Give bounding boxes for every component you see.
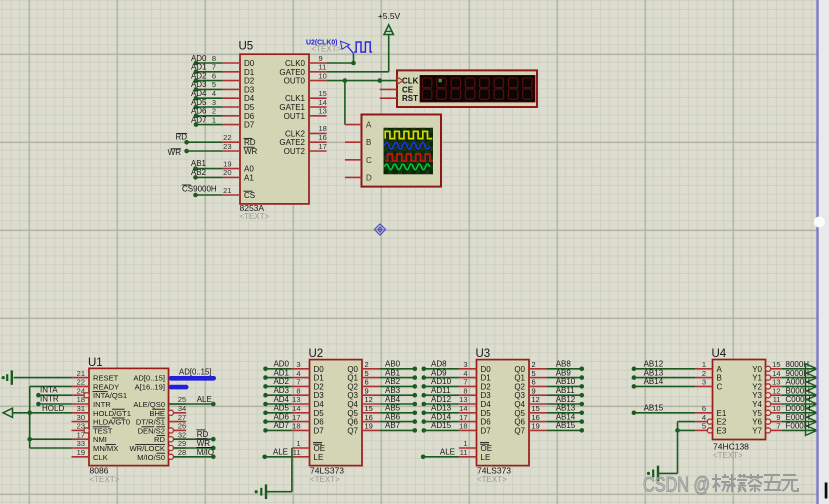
svg-text:14: 14 <box>459 404 467 413</box>
svg-text:AB2: AB2 <box>385 377 401 386</box>
svg-text:11: 11 <box>773 395 781 404</box>
svg-text:<TEXT>: <TEXT> <box>240 212 270 221</box>
svg-text:ALE: ALE <box>440 448 455 457</box>
svg-text:D1: D1 <box>314 374 325 383</box>
svg-text:ALE: ALE <box>197 395 212 404</box>
svg-text:<TEXT>: <TEXT> <box>312 45 342 54</box>
svg-text:HLDA/GT0: HLDA/GT0 <box>93 418 130 427</box>
svg-text:18: 18 <box>319 124 327 133</box>
svg-text:OE: OE <box>481 444 493 453</box>
svg-text:Q7: Q7 <box>347 426 358 435</box>
svg-text:BHE: BHE <box>149 409 165 418</box>
svg-text:24: 24 <box>77 386 85 395</box>
svg-text:D7: D7 <box>481 426 492 435</box>
svg-text:19: 19 <box>77 448 85 457</box>
svg-text:NMI: NMI <box>93 435 107 444</box>
svg-text:WR: WR <box>168 148 182 157</box>
svg-text:Q1: Q1 <box>514 374 525 383</box>
svg-text:Q6: Q6 <box>347 418 358 427</box>
svg-text:GATE2: GATE2 <box>279 138 305 147</box>
svg-text:34: 34 <box>178 404 186 413</box>
svg-text:15: 15 <box>319 89 327 98</box>
svg-text:AB14: AB14 <box>644 377 664 386</box>
svg-text:29: 29 <box>178 439 186 448</box>
svg-text:19: 19 <box>223 159 231 168</box>
svg-text:9: 9 <box>532 386 536 395</box>
svg-text:16: 16 <box>532 413 540 422</box>
svg-text:AB13: AB13 <box>644 368 664 377</box>
svg-text:AB15: AB15 <box>556 421 576 430</box>
svg-text:E2: E2 <box>717 418 727 427</box>
svg-text:Y0: Y0 <box>752 365 762 374</box>
svg-text:8: 8 <box>296 386 300 395</box>
svg-text:GATE0: GATE0 <box>279 68 305 77</box>
svg-text:1: 1 <box>296 439 300 448</box>
svg-text:26: 26 <box>178 422 186 431</box>
svg-text:AD8: AD8 <box>431 360 447 369</box>
svg-text:Q2: Q2 <box>347 382 358 391</box>
svg-text:6: 6 <box>702 404 706 413</box>
svg-text:RD: RD <box>175 133 187 142</box>
svg-text:15: 15 <box>532 404 540 413</box>
svg-text:M/IO/S0: M/IO/S0 <box>137 453 165 462</box>
svg-text:CLK1: CLK1 <box>285 94 306 103</box>
svg-text:AD4: AD4 <box>191 89 207 98</box>
svg-text:CLK2: CLK2 <box>285 129 306 138</box>
svg-text:AD9: AD9 <box>431 368 447 377</box>
svg-text:74LS373: 74LS373 <box>310 466 344 476</box>
svg-text:CSDN @: CSDN @ <box>643 473 710 497</box>
svg-text:3: 3 <box>212 98 216 107</box>
svg-text:17: 17 <box>319 142 327 151</box>
svg-text:Y2: Y2 <box>752 382 762 391</box>
svg-text:AD14: AD14 <box>431 412 452 421</box>
svg-text:5: 5 <box>365 369 369 378</box>
svg-text:22: 22 <box>77 378 85 387</box>
svg-text:CS9000H: CS9000H <box>182 184 217 193</box>
svg-text:D3: D3 <box>244 85 255 94</box>
svg-text:32: 32 <box>178 430 186 439</box>
svg-text:7: 7 <box>296 378 300 387</box>
svg-text:Y5: Y5 <box>752 409 762 418</box>
svg-text:7: 7 <box>212 63 216 72</box>
svg-text:D3: D3 <box>314 391 325 400</box>
svg-text:1: 1 <box>463 439 467 448</box>
svg-text:<TEXT>: <TEXT> <box>90 475 120 484</box>
svg-text:2: 2 <box>365 360 369 369</box>
svg-text:CLK: CLK <box>402 77 419 86</box>
svg-text:Y3: Y3 <box>752 391 762 400</box>
svg-text:RD: RD <box>197 430 209 439</box>
svg-text:15: 15 <box>365 404 373 413</box>
svg-text:OUT0: OUT0 <box>284 77 306 86</box>
svg-text:30: 30 <box>77 413 85 422</box>
svg-text:Q1: Q1 <box>347 374 358 383</box>
svg-text:<TEXT>: <TEXT> <box>310 475 340 484</box>
svg-text:1: 1 <box>702 360 706 369</box>
svg-text:AD12: AD12 <box>431 395 452 404</box>
svg-text:28: 28 <box>178 448 186 457</box>
svg-text:D0: D0 <box>481 365 492 374</box>
svg-text:AD10: AD10 <box>431 377 452 386</box>
svg-text:4: 4 <box>296 369 300 378</box>
svg-text:D1: D1 <box>481 374 492 383</box>
svg-text:D: D <box>366 173 372 182</box>
svg-text:7: 7 <box>463 378 467 387</box>
svg-text:16: 16 <box>319 133 327 142</box>
svg-text:14: 14 <box>292 404 300 413</box>
svg-text:CS: CS <box>244 191 255 200</box>
svg-text:AD3: AD3 <box>191 80 207 89</box>
svg-text:A: A <box>717 365 723 374</box>
svg-text:A1: A1 <box>244 173 254 182</box>
svg-text:AD1: AD1 <box>191 63 207 72</box>
svg-text:DEN/S2: DEN/S2 <box>138 426 165 435</box>
svg-text:AB14: AB14 <box>556 412 576 421</box>
svg-text:21: 21 <box>223 186 231 195</box>
svg-text:AD7: AD7 <box>273 421 289 430</box>
svg-text:D5: D5 <box>244 103 255 112</box>
svg-text:AD3: AD3 <box>273 386 289 395</box>
svg-text:U3: U3 <box>476 348 491 360</box>
svg-text:AD0: AD0 <box>273 360 289 369</box>
svg-text:5: 5 <box>532 369 536 378</box>
svg-text:19: 19 <box>365 422 373 431</box>
svg-text:AD13: AD13 <box>431 404 452 413</box>
svg-text:RD: RD <box>244 138 256 147</box>
svg-text:AB3: AB3 <box>385 386 401 395</box>
svg-text:AD1: AD1 <box>273 368 289 377</box>
svg-text:AD2: AD2 <box>273 377 289 386</box>
svg-text:11: 11 <box>460 448 468 457</box>
svg-text:9: 9 <box>776 413 780 422</box>
svg-text:D5: D5 <box>314 409 325 418</box>
svg-text:RST: RST <box>402 94 418 103</box>
svg-text:21: 21 <box>77 369 85 378</box>
svg-text:25: 25 <box>178 395 186 404</box>
svg-text:4: 4 <box>702 413 706 422</box>
svg-text:Q6: Q6 <box>514 418 525 427</box>
svg-text:12: 12 <box>772 386 780 395</box>
svg-text:AB1: AB1 <box>191 159 207 168</box>
svg-text:Y6: Y6 <box>752 418 762 427</box>
svg-text:33: 33 <box>77 439 85 448</box>
svg-text:22: 22 <box>223 133 231 142</box>
svg-text:8086: 8086 <box>90 466 109 476</box>
svg-text:CLK: CLK <box>93 453 108 462</box>
svg-text:6: 6 <box>365 378 369 387</box>
svg-text:2: 2 <box>212 107 216 116</box>
svg-text:4: 4 <box>463 369 467 378</box>
svg-text:Q3: Q3 <box>514 391 525 400</box>
svg-text:Q0: Q0 <box>514 365 525 374</box>
svg-text:Q2: Q2 <box>514 382 525 391</box>
svg-text:Q4: Q4 <box>347 400 358 409</box>
svg-text:D4: D4 <box>481 400 492 409</box>
svg-text:C: C <box>717 382 723 391</box>
svg-text:D2: D2 <box>314 382 325 391</box>
svg-text:A: A <box>366 121 372 130</box>
svg-text:D4: D4 <box>314 400 325 409</box>
svg-text:AD4: AD4 <box>273 395 289 404</box>
svg-text:AD[0..15]: AD[0..15] <box>133 374 165 383</box>
svg-text:B: B <box>366 138 371 147</box>
svg-text:Q0: Q0 <box>347 365 358 374</box>
svg-text:AD5: AD5 <box>191 98 207 107</box>
svg-text:17: 17 <box>77 430 85 439</box>
svg-text:17: 17 <box>459 413 467 422</box>
svg-text:AD2: AD2 <box>191 71 207 80</box>
svg-text:3: 3 <box>702 378 706 387</box>
svg-text:AD11: AD11 <box>431 386 451 395</box>
svg-text:AD6: AD6 <box>191 107 207 116</box>
svg-text:HOLD/GT1: HOLD/GT1 <box>93 409 131 418</box>
svg-text:AD6: AD6 <box>273 412 289 421</box>
svg-text:HOLD: HOLD <box>42 404 64 413</box>
svg-text:AB8: AB8 <box>556 360 572 369</box>
svg-text:WR: WR <box>244 147 258 156</box>
svg-text:AD0: AD0 <box>191 54 207 63</box>
svg-text:Q5: Q5 <box>514 409 525 418</box>
svg-text:3: 3 <box>463 360 467 369</box>
svg-text:74HC138: 74HC138 <box>713 442 749 452</box>
svg-text:Y4: Y4 <box>752 400 762 409</box>
svg-text:7: 7 <box>776 422 780 431</box>
svg-text:11: 11 <box>319 63 327 72</box>
svg-text:WR/LOCK: WR/LOCK <box>130 444 165 453</box>
svg-text:INTA/QS1: INTA/QS1 <box>93 391 127 400</box>
svg-text:6: 6 <box>212 71 216 80</box>
svg-text:15: 15 <box>772 360 780 369</box>
svg-text:AB6: AB6 <box>385 412 401 421</box>
svg-text:2: 2 <box>702 369 706 378</box>
svg-text:ALE/QS0: ALE/QS0 <box>133 400 165 409</box>
svg-text:GATE1: GATE1 <box>279 103 305 112</box>
svg-text:D3: D3 <box>481 391 492 400</box>
svg-text:AB12: AB12 <box>644 360 664 369</box>
svg-text:18: 18 <box>459 422 467 431</box>
svg-text:OUT2: OUT2 <box>284 147 306 156</box>
svg-text:10: 10 <box>772 404 780 413</box>
svg-text:READY: READY <box>93 382 119 391</box>
svg-text:INTR: INTR <box>93 400 111 409</box>
svg-text:D0: D0 <box>314 365 325 374</box>
svg-text:AB13: AB13 <box>556 404 576 413</box>
svg-text:AD7: AD7 <box>191 115 207 124</box>
svg-text:Q7: Q7 <box>514 426 525 435</box>
svg-text:12: 12 <box>365 395 373 404</box>
svg-text:AD[0..15]: AD[0..15] <box>179 367 212 376</box>
svg-text:14: 14 <box>772 369 780 378</box>
svg-text:18: 18 <box>77 395 85 404</box>
svg-text:INTA: INTA <box>40 386 58 395</box>
svg-text:OUT1: OUT1 <box>284 112 306 121</box>
svg-text:19: 19 <box>532 422 540 431</box>
svg-text:RD: RD <box>154 435 165 444</box>
svg-text:WR: WR <box>197 439 211 448</box>
svg-text:6: 6 <box>532 378 536 387</box>
svg-text:17: 17 <box>292 413 300 422</box>
svg-text:AB12: AB12 <box>556 395 576 404</box>
svg-text:U1: U1 <box>88 357 103 369</box>
svg-text:20: 20 <box>223 168 231 177</box>
svg-text:U2: U2 <box>309 348 324 360</box>
svg-text:LE: LE <box>481 453 491 462</box>
svg-text:D1: D1 <box>244 68 255 77</box>
svg-text:AB10: AB10 <box>556 377 576 386</box>
svg-text:E3: E3 <box>717 426 727 435</box>
svg-text:23: 23 <box>77 422 85 431</box>
svg-text:AB4: AB4 <box>385 395 401 404</box>
svg-text:Y7: Y7 <box>752 426 762 435</box>
svg-text:AB11: AB11 <box>556 386 576 395</box>
svg-text:D4: D4 <box>244 94 255 103</box>
svg-text:13: 13 <box>292 395 300 404</box>
svg-text:AD5: AD5 <box>273 404 289 413</box>
svg-text:8: 8 <box>212 54 216 63</box>
svg-text:5: 5 <box>212 80 216 89</box>
svg-text:<TEXT>: <TEXT> <box>477 475 507 484</box>
svg-text:AB9: AB9 <box>556 368 572 377</box>
svg-text:+5.5V: +5.5V <box>378 11 401 21</box>
svg-text:D7: D7 <box>314 426 325 435</box>
svg-text:AB7: AB7 <box>385 421 401 430</box>
svg-text:27: 27 <box>178 413 186 422</box>
svg-text:B: B <box>717 374 722 383</box>
svg-text:AB15: AB15 <box>644 404 664 413</box>
svg-text:A[16..19]: A[16..19] <box>135 382 165 391</box>
svg-text:1: 1 <box>212 115 216 124</box>
svg-text:5: 5 <box>702 422 706 431</box>
svg-text:A0: A0 <box>244 165 254 174</box>
svg-text:U5: U5 <box>239 41 254 53</box>
svg-text:31: 31 <box>77 404 85 413</box>
svg-text:D2: D2 <box>244 77 255 86</box>
svg-text:Q3: Q3 <box>347 391 358 400</box>
svg-text:10: 10 <box>319 71 327 80</box>
svg-text:MN/MX: MN/MX <box>93 444 118 453</box>
svg-text:Y1: Y1 <box>752 374 762 383</box>
svg-text:16: 16 <box>365 413 373 422</box>
svg-text:13: 13 <box>772 378 780 387</box>
svg-text:D7: D7 <box>244 121 255 130</box>
svg-text:AB5: AB5 <box>385 404 401 413</box>
svg-text:D2: D2 <box>481 382 492 391</box>
svg-text:18: 18 <box>292 422 300 431</box>
svg-text:9: 9 <box>319 54 323 63</box>
svg-text:M/IO: M/IO <box>197 448 214 457</box>
svg-text:AB2: AB2 <box>191 168 207 177</box>
svg-text:D6: D6 <box>314 418 325 427</box>
svg-text:CLK0: CLK0 <box>285 59 306 68</box>
svg-text:D6: D6 <box>244 112 255 121</box>
svg-text:14: 14 <box>319 98 327 107</box>
svg-text:LE: LE <box>314 453 324 462</box>
svg-text:13: 13 <box>319 107 327 116</box>
svg-text:D5: D5 <box>481 409 492 418</box>
svg-text:Q5: Q5 <box>347 409 358 418</box>
svg-text:23: 23 <box>223 142 231 151</box>
svg-text:4: 4 <box>212 89 216 98</box>
svg-text:RESET: RESET <box>93 374 119 383</box>
svg-text:<TEXT>: <TEXT> <box>713 451 743 460</box>
svg-text:OE: OE <box>314 444 326 453</box>
svg-text:U4: U4 <box>712 348 727 360</box>
svg-text:DT/R/S1: DT/R/S1 <box>136 418 165 427</box>
svg-text:11: 11 <box>293 448 301 457</box>
svg-text:E1: E1 <box>717 409 727 418</box>
svg-text:74LS373: 74LS373 <box>477 466 511 476</box>
svg-text:13: 13 <box>459 395 467 404</box>
svg-text:9: 9 <box>365 386 369 395</box>
svg-text:TEST: TEST <box>93 426 113 435</box>
svg-text:8: 8 <box>463 386 467 395</box>
svg-text:Q4: Q4 <box>514 400 525 409</box>
svg-text:C: C <box>366 156 372 165</box>
svg-text:D6: D6 <box>481 418 492 427</box>
svg-text:12: 12 <box>532 395 540 404</box>
svg-text:3: 3 <box>296 360 300 369</box>
svg-text:INTR: INTR <box>40 395 59 404</box>
svg-text:AD15: AD15 <box>431 421 452 430</box>
svg-text:D0: D0 <box>244 59 255 68</box>
svg-text:CE: CE <box>402 85 414 94</box>
svg-text:AB1: AB1 <box>385 368 401 377</box>
svg-text:2: 2 <box>532 360 536 369</box>
svg-text:AB0: AB0 <box>385 360 401 369</box>
svg-text:ALE: ALE <box>273 448 288 457</box>
